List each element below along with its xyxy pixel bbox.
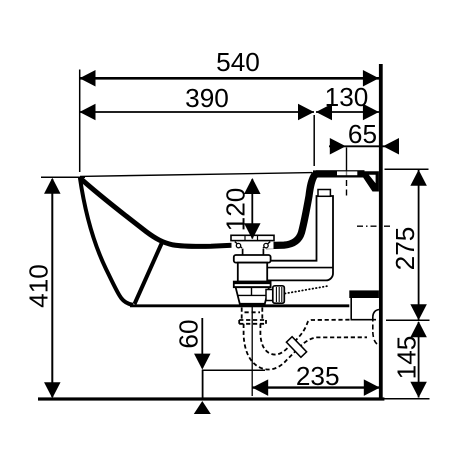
dim 130 right arrow xyxy=(363,104,379,121)
svg-text:390: 390 xyxy=(185,83,229,113)
drain flange plate xyxy=(231,235,274,240)
dim 65 right arrow (outside, pointing left) xyxy=(383,138,399,155)
trap U outer xyxy=(244,324,367,370)
dim 60 bottom arrow (pointing down) xyxy=(194,354,211,370)
supply marker dash-dot xyxy=(357,225,390,227)
plug chain dotted xyxy=(285,286,329,294)
wall xyxy=(379,64,383,399)
dashed tailpipe below shelf xyxy=(239,308,367,370)
dim 275 top extension xyxy=(385,168,429,170)
drain flange under-block xyxy=(232,241,274,249)
flange plate ticks xyxy=(244,235,246,240)
tailpipe right edge xyxy=(261,308,263,321)
dim 540 left arrow xyxy=(80,70,96,87)
dim 65 line xyxy=(329,145,399,147)
dim 275 top arrow xyxy=(410,170,427,186)
wall bracket xyxy=(363,171,379,191)
overflow standpipe and duct white body xyxy=(265,196,334,280)
bowl inner curve right and deck xyxy=(266,174,365,246)
cup bottom thick xyxy=(239,303,266,306)
dim 60 line xyxy=(201,318,203,368)
wall bracket white inset xyxy=(369,175,376,183)
extension line x314 xyxy=(313,115,315,166)
dim 60 tick line xyxy=(202,369,265,371)
dim 390 line xyxy=(80,111,315,113)
dim 390 right arrow xyxy=(298,104,314,121)
svg-text:65: 65 xyxy=(348,119,377,149)
trap cup xyxy=(236,287,269,304)
deck bar reinforcement xyxy=(313,170,365,177)
wall outlet white box xyxy=(351,298,379,320)
tailpipe sleeve tick xyxy=(245,311,261,313)
svg-text:410: 410 xyxy=(24,264,54,308)
basin bottom shelf line xyxy=(130,304,349,307)
trap nut top xyxy=(239,319,266,321)
dim 410 top extension xyxy=(41,176,85,178)
dim 235 left arrow xyxy=(252,379,268,396)
dim 120 top arrow xyxy=(244,178,260,194)
dim 145 line xyxy=(418,322,420,398)
knob collar xyxy=(266,290,273,301)
drain throat xyxy=(243,249,264,256)
svg-text:130: 130 xyxy=(325,82,369,112)
basin rim thin top line xyxy=(80,173,312,177)
dim 540 right arrow xyxy=(363,70,379,87)
drain collar xyxy=(234,255,271,263)
basin foot back diagonal xyxy=(135,243,163,305)
dim 410 top arrow xyxy=(44,178,61,194)
dim 275 line xyxy=(418,170,420,320)
flange screw right xyxy=(264,243,268,247)
bowl inner curve left xyxy=(80,178,232,246)
dim 120 bottom arrow xyxy=(244,223,260,239)
svg-text:120: 120 xyxy=(221,188,251,232)
dim 540 line xyxy=(80,77,380,80)
wall outlet black bar xyxy=(349,290,379,298)
basin front outer edge xyxy=(80,177,133,305)
trap nut bottom xyxy=(239,323,266,325)
dim 235 left extension xyxy=(251,307,253,397)
trap arm nut xyxy=(286,337,306,358)
dim 410 line xyxy=(51,179,53,397)
svg-text:275: 275 xyxy=(390,227,420,271)
floor extension right xyxy=(383,398,430,400)
dim 275 bottom arrow xyxy=(410,304,427,320)
left extension line xyxy=(79,70,81,173)
svg-text:60: 60 xyxy=(174,319,204,348)
wall socket rounded xyxy=(373,310,379,317)
svg-text:145: 145 xyxy=(392,336,422,380)
dim 130 line xyxy=(316,111,379,113)
trap nut right xyxy=(265,320,267,324)
dim 410 bottom arrow xyxy=(44,382,61,398)
dim 120 line xyxy=(251,179,253,239)
dim 145 top arrow xyxy=(410,321,427,337)
drain body xyxy=(238,263,267,282)
tap centerline dash-dot xyxy=(346,148,348,171)
cup ring xyxy=(234,282,271,288)
dim 60 below-floor arrow (pointing up) xyxy=(194,401,211,414)
deck tap slot xyxy=(337,171,357,175)
trap nut left xyxy=(238,320,240,324)
dim 235 line xyxy=(252,386,380,388)
flange hook marks xyxy=(235,242,242,248)
dim 275/145 shared reference line xyxy=(386,319,430,321)
duct inner top line xyxy=(265,267,334,269)
dim 130 left arrow xyxy=(316,104,332,121)
tailpipe left edge xyxy=(241,308,243,321)
floor xyxy=(38,397,384,400)
standpipe cap xyxy=(318,190,330,197)
dim 235 right arrow xyxy=(364,379,380,396)
trap U inner xyxy=(260,320,350,355)
dim 390 left arrow xyxy=(80,104,96,121)
dim 145 bottom arrow xyxy=(410,382,427,398)
knurled knob xyxy=(273,286,285,303)
dim 65 left arrow (outside, pointing right) xyxy=(330,138,346,155)
flange screw left xyxy=(236,243,240,247)
svg-text:235: 235 xyxy=(296,361,340,391)
duct outer outline xyxy=(265,196,334,280)
svg-text:540: 540 xyxy=(216,47,260,77)
